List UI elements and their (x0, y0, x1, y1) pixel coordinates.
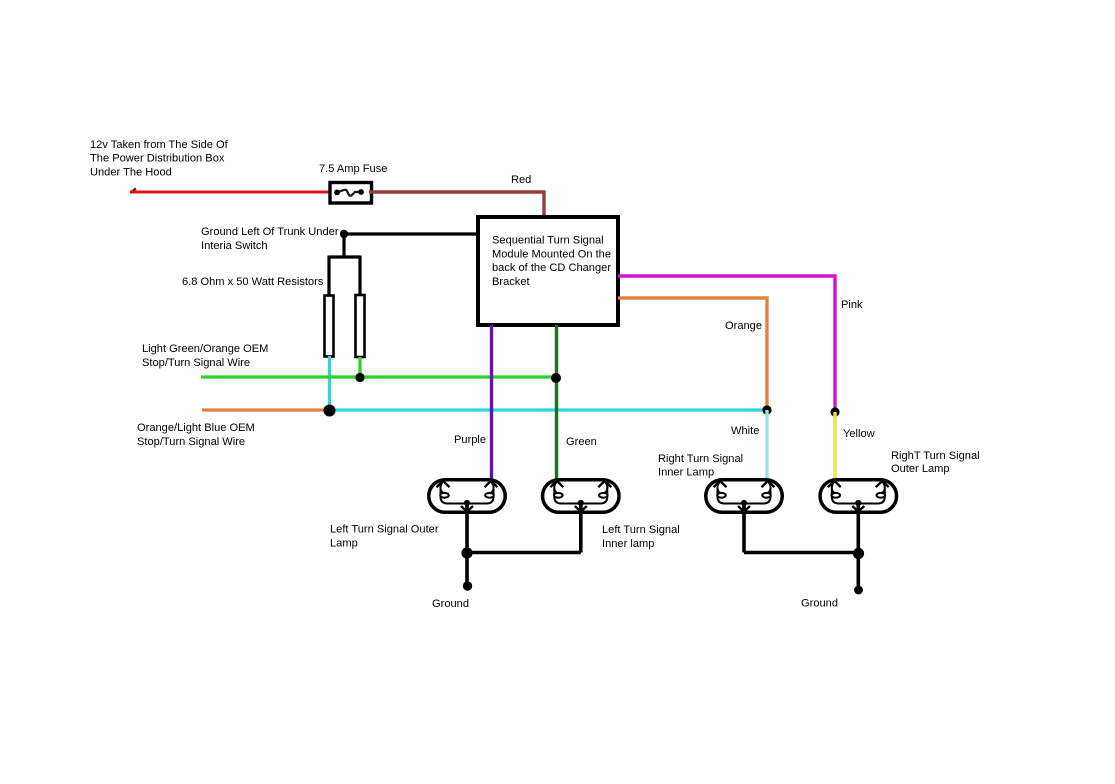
svg-text:White: White (731, 425, 759, 437)
wire: yellow to lamp (833, 412, 836, 480)
lamp L2: left inner (543, 480, 620, 513)
resistor R2 (356, 295, 365, 357)
wire: lamp L2 down (579, 504, 583, 553)
node: right ground junction (853, 548, 864, 559)
node: ground junction (340, 230, 348, 238)
lamp L3: right inner (706, 480, 783, 513)
wire: orange from module (618, 298, 767, 410)
node: left ground junction (461, 547, 472, 558)
svg-text:Light Green/Orange OEM: Light Green/Orange OEM (142, 343, 268, 355)
svg-text:12v Taken from The Side Of: 12v Taken from The Side Of (90, 139, 229, 151)
svg-text:Stop/Turn Signal Wire: Stop/Turn Signal Wire (137, 436, 245, 448)
wire: white to lamp (765, 410, 768, 480)
wire: L2 to junction (467, 551, 581, 555)
resistor R1 (325, 296, 334, 357)
wire: red fuse to module (369, 192, 544, 217)
svg-text:Left Turn Signal Outer: Left Turn Signal Outer (330, 524, 439, 536)
node: green junction (551, 373, 561, 383)
wire: lamp L3 down (742, 504, 746, 553)
lamp L1: left outer (429, 480, 506, 513)
svg-text:Orange/Light Blue OEM: Orange/Light Blue OEM (137, 422, 255, 434)
svg-text:Purple: Purple (454, 434, 486, 446)
wire: green below R2 (358, 357, 361, 377)
svg-text:Sequential Turn Signal: Sequential Turn Signal (492, 235, 604, 247)
svg-text:Orange: Orange (725, 320, 762, 332)
wire: ground to resistors (329, 234, 360, 296)
svg-text:Ground: Ground (801, 598, 838, 610)
lamp L4: right outer (820, 480, 897, 513)
svg-text:Inner lamp: Inner lamp (602, 538, 654, 550)
svg-text:Module Mounted On the: Module Mounted On the (492, 248, 611, 260)
svg-text:Green: Green (566, 436, 597, 448)
wire: lamp L4 to ground (856, 504, 860, 590)
svg-text:Outer Lamp: Outer Lamp (891, 463, 950, 475)
svg-text:RighT Turn Signal: RighT Turn Signal (891, 450, 980, 462)
wire: purple from module (490, 325, 493, 480)
module U1: sequential turn signal module (478, 217, 618, 325)
svg-text:7.5 Amp Fuse: 7.5 Amp Fuse (319, 163, 387, 175)
wire: cyan OEM (330, 408, 768, 411)
svg-text:6.8 Ohm x 50 Watt Resistors: 6.8 Ohm x 50 Watt Resistors (182, 276, 324, 288)
wire: ground to module (344, 232, 478, 235)
svg-text:Ground Left Of Trunk Under: Ground Left Of Trunk Under (201, 226, 339, 238)
node: cyan/white junction (762, 405, 771, 414)
svg-text:The Power Distribution Box: The Power Distribution Box (90, 153, 225, 165)
svg-text:Bracket: Bracket (492, 276, 530, 288)
svg-text:Yellow: Yellow (843, 428, 876, 440)
svg-text:Lamp: Lamp (330, 538, 358, 550)
svg-text:Red: Red (511, 174, 531, 186)
svg-text:back of the CD Changer: back of the CD Changer (492, 262, 611, 274)
wire: L3 to right junction (744, 551, 859, 555)
fuse F1 (330, 183, 372, 204)
node: left ground terminal (463, 581, 472, 590)
svg-text:Ground: Ground (432, 598, 469, 610)
svg-text:Inner Lamp: Inner Lamp (658, 467, 714, 479)
wire: orange OEM left (202, 408, 326, 411)
wire: light green OEM stop/turn (201, 375, 556, 378)
wire: 12v red feed (131, 189, 137, 193)
wire: lamp L1 to ground junction (465, 504, 469, 586)
svg-text:Left Turn Signal: Left Turn Signal (602, 524, 680, 536)
node: right ground terminal (854, 586, 863, 595)
wire: cyan below R1 (328, 356, 331, 410)
svg-text:Under The Hood: Under The Hood (90, 166, 172, 178)
svg-text:Pink: Pink (841, 299, 863, 311)
node: green/resistor junction (355, 373, 364, 382)
node: pink/yellow junction (830, 407, 839, 416)
svg-text:Stop/Turn Signal Wire: Stop/Turn Signal Wire (142, 357, 250, 369)
node: orange/cyan junction (324, 405, 336, 417)
svg-text:Right Turn Signal: Right Turn Signal (658, 453, 743, 465)
wire: dark green from module (555, 325, 558, 480)
svg-text:Interia Switch: Interia Switch (201, 240, 268, 252)
wire: pink from module (618, 276, 835, 412)
